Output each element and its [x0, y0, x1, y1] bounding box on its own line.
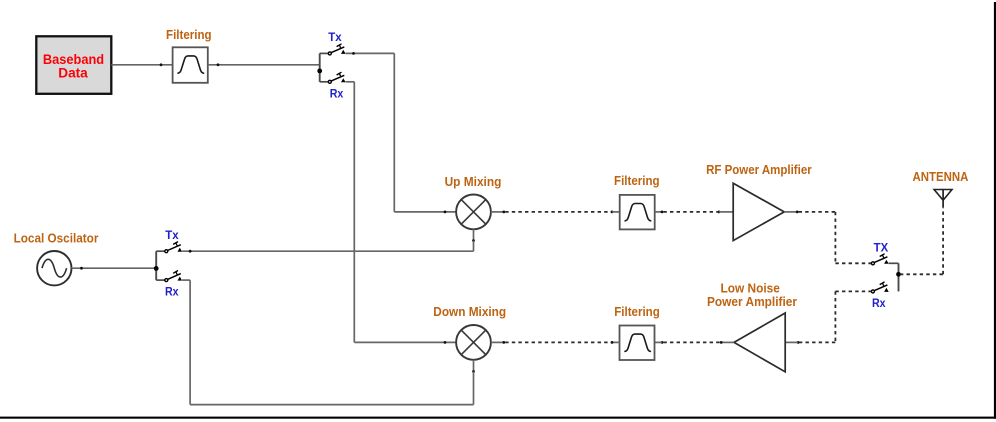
svg-text:RF Power Amplifier: RF Power Amplifier — [706, 162, 812, 177]
pin node down-mixer input — [444, 341, 447, 344]
svg-text:Down Mixing: Down Mixing — [433, 304, 506, 319]
right border frame line — [994, 2, 996, 419]
svg-text:Filtering: Filtering — [614, 173, 660, 188]
svg-text:Power Amplifier: Power Amplifier — [707, 294, 797, 309]
switch SW2 RX contact — [871, 282, 888, 293]
dashed wire RX switch to corner (LNA input path) — [835, 290, 871, 292]
oscillator G1 Local Oscilator — [37, 251, 71, 285]
junction dot SW3 — [154, 266, 159, 271]
dashed wire A1 output to corner — [799, 211, 836, 213]
wire bottom run to below U2 — [190, 404, 473, 406]
dashed wire F2 to RF power amplifier — [663, 211, 717, 213]
switch SW3 common stem — [155, 251, 157, 280]
pin node filter F2 input — [611, 211, 614, 214]
wire SW1 Tx output to corner — [346, 52, 395, 54]
dashed wire vertical up to antenna — [942, 208, 944, 275]
wire vertical up into U1 LO pin — [473, 241, 475, 252]
pin node filter F2 output — [661, 211, 664, 214]
pin node filter F3 output — [661, 341, 664, 344]
pin node filter F1 input — [160, 63, 163, 66]
antenna ANT1 — [934, 189, 952, 208]
wire G1 to switch SW3 — [72, 267, 157, 269]
dashed wire down-mixer to F3 — [505, 341, 610, 343]
junction dot SW2 antenna node — [896, 272, 901, 277]
switch SW1 Tx contact — [320, 44, 346, 55]
dashed wire into LNA input — [799, 341, 836, 343]
filter F2 (bandpass) — [620, 195, 655, 230]
svg-text:Local Oscilator: Local Oscilator — [14, 230, 99, 245]
wire A2 input stub — [785, 341, 798, 343]
mixer U2 Down Mixing — [456, 325, 491, 360]
wire vertical down to bottom run — [189, 280, 191, 405]
wire U2 LO stub — [473, 360, 475, 372]
wire vertical up into U2 LO pin — [473, 372, 475, 405]
junction dot SW1 — [317, 69, 322, 74]
label Baseband Data (red) — [43, 52, 104, 81]
pin node U2 output — [502, 341, 505, 344]
svg-text:Up Mixing: Up Mixing — [445, 174, 502, 189]
pin node A2 input — [797, 341, 800, 344]
pin node U1 output — [502, 211, 505, 214]
svg-text:Filtering: Filtering — [166, 27, 212, 42]
pin node U2 LO — [472, 370, 475, 373]
wire vertical down to up-mixer row — [393, 53, 395, 212]
wire F3 right stub — [655, 341, 663, 343]
dashed wire junction to antenna corner — [900, 273, 943, 275]
switch SW3 Tx contact — [156, 242, 182, 253]
wire A2 output stub — [721, 341, 734, 343]
pin node filter F1 output — [217, 63, 220, 66]
dashed wire A2 to filter F3 — [663, 341, 719, 343]
wire baseband to filter F1 — [111, 64, 172, 66]
svg-text:Rx: Rx — [330, 87, 344, 101]
pin node G1 output — [80, 267, 83, 270]
svg-text:Data: Data — [58, 66, 88, 81]
pin node SW1 Tx output — [352, 52, 355, 55]
block B1 Baseband Data — [36, 36, 111, 94]
switch SW2 TX contact (antenna side) — [871, 254, 898, 265]
svg-text:Rx: Rx — [165, 285, 179, 299]
svg-text:Tx: Tx — [165, 228, 179, 242]
pin node A2 output — [720, 341, 723, 344]
svg-text:Filtering: Filtering — [614, 304, 660, 319]
pin node filter F3 input — [611, 341, 614, 344]
filter F3 (bandpass) — [620, 326, 655, 361]
wire A1 output stub — [784, 211, 797, 213]
amplifier A1 RF Power Amplifier — [733, 183, 784, 240]
svg-text:Rx: Rx — [872, 296, 886, 310]
pin node A1 input — [718, 211, 721, 214]
svg-text:ANTENNA: ANTENNA — [912, 169, 968, 184]
wire F2 input stub — [612, 211, 620, 213]
wire U1 output stub — [491, 211, 504, 213]
wire filter F1 to switch SW1 — [208, 64, 320, 66]
dashed wire into TX switch — [835, 262, 871, 264]
wire SW3 Tx output long run to U1 LO pin — [182, 250, 473, 252]
wire into down-mixer input — [354, 341, 456, 343]
wire A1 input stub — [719, 211, 733, 213]
switch SW1 Rx contact — [320, 72, 346, 83]
pin node up-mixer input — [444, 211, 447, 214]
switch SW2 common stem — [898, 263, 900, 291]
pin node A1 output — [796, 211, 799, 214]
filter F1 (bandpass) — [173, 47, 208, 83]
svg-text:TX: TX — [874, 240, 889, 254]
wire U1 LO stub — [473, 229, 475, 240]
switch SW1 common stem — [319, 53, 321, 81]
wire U2 output stub — [491, 341, 504, 343]
pin node U1 LO — [472, 239, 475, 242]
amplifier A2 Low Noise Power Amplifier — [734, 313, 785, 372]
wire F3 left stub — [612, 341, 620, 343]
dashed wire U1 to filter F2 — [505, 211, 612, 213]
wire into up-mixer input — [394, 211, 456, 213]
wire vertical down to down-mixer row — [353, 82, 355, 343]
pin node SW3 Tx output — [189, 250, 192, 253]
bottom border frame line — [0, 417, 996, 419]
dashed wire vertical down to LNA row — [834, 291, 836, 342]
svg-text:Tx: Tx — [328, 30, 342, 44]
mixer U1 Up Mixing — [456, 195, 491, 230]
wire SW3 Rx output — [182, 279, 190, 281]
wire SW1 Rx output to corner — [346, 81, 355, 83]
switch SW3 Rx contact — [156, 271, 182, 282]
dashed wire vertical down to TX switch — [834, 212, 836, 263]
wire F2 output stub — [655, 211, 662, 213]
